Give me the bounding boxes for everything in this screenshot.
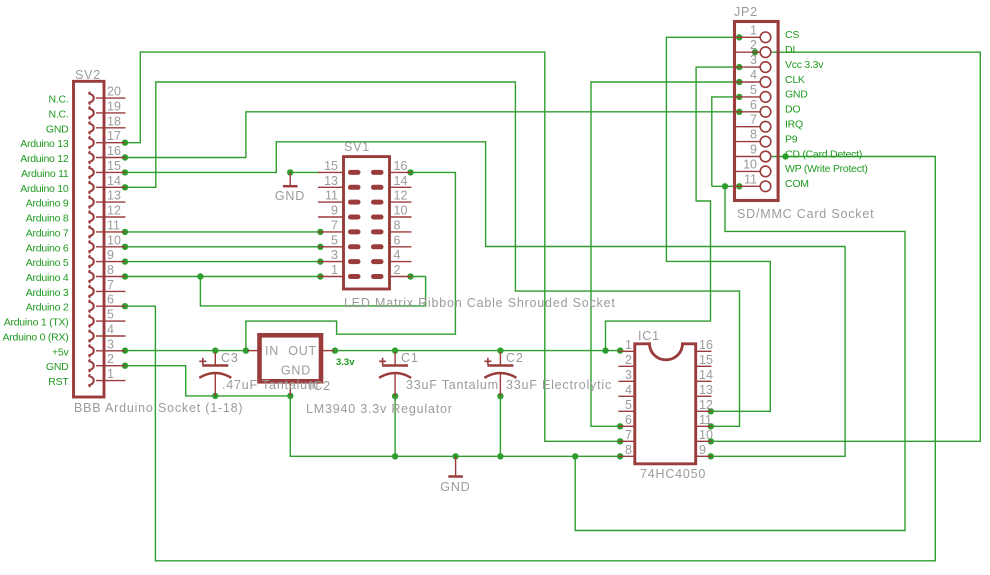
svg-text:11: 11	[107, 218, 120, 232]
svg-text:3: 3	[750, 53, 757, 67]
svg-text:GND: GND	[46, 361, 69, 373]
svg-text:Arduino 7: Arduino 7	[26, 227, 69, 239]
svg-text:10: 10	[107, 233, 121, 247]
svg-text:Arduino 11: Arduino 11	[21, 168, 69, 180]
svg-text:N.C.: N.C.	[49, 94, 69, 106]
junction dots net GND	[122, 94, 743, 460]
svg-text:Arduino 5: Arduino 5	[26, 257, 69, 269]
svg-text:9: 9	[107, 248, 114, 262]
svg-text:1: 1	[750, 23, 757, 37]
junction dots net Arduino10	[122, 184, 714, 429]
junction dots net Arduino12	[122, 109, 743, 161]
svg-text:4: 4	[394, 248, 401, 262]
svg-text:33uF Electrolytic: 33uF Electrolytic	[506, 378, 612, 392]
svg-text:LED Matrix Ribbon Cable Shroud: LED Matrix Ribbon Cable Shrouded Socket	[344, 296, 616, 310]
junction dots net DI	[708, 49, 759, 444]
wire C2 bottom to GND bus	[497, 393, 503, 456]
svg-text:6: 6	[625, 413, 632, 427]
svg-text:5: 5	[625, 398, 632, 412]
svg-text:8: 8	[625, 443, 632, 457]
svg-text:1: 1	[625, 338, 632, 352]
wire net Arduino7: SV2 pin11 to SV1 pin7	[122, 229, 324, 235]
wire net 3.3V: IC2 OUT, C1, C2, IC1 pin1, JP2 pin3	[334, 67, 737, 351]
svg-text:16: 16	[394, 159, 408, 173]
svg-text:14: 14	[107, 174, 121, 188]
svg-text:16: 16	[699, 338, 713, 352]
svg-text:GND: GND	[440, 480, 470, 494]
wire net CS: JP2 pin1 to IC1 pin12	[666, 37, 770, 411]
svg-text:C1: C1	[401, 351, 419, 365]
svg-text:P9: P9	[785, 133, 798, 145]
svg-text:9: 9	[699, 443, 706, 457]
svg-text:11: 11	[699, 413, 712, 427]
wire net Arduino6: SV2 pin10 to SV1 pin5	[122, 244, 324, 250]
svg-text:2: 2	[750, 38, 757, 52]
svg-text:BBB Arduino Socket (1-18): BBB Arduino Socket (1-18)	[74, 401, 243, 415]
capacitor C1	[379, 352, 411, 396]
svg-text:10: 10	[699, 428, 713, 442]
svg-text:IC1: IC1	[638, 329, 660, 343]
svg-text:9: 9	[331, 204, 338, 218]
svg-text:Arduino 1 (TX): Arduino 1 (TX)	[4, 317, 69, 329]
JP2 pin numbers 1..11	[743, 23, 757, 186]
svg-text:15: 15	[324, 159, 338, 173]
junction dots net Arduino4	[122, 273, 414, 279]
svg-text:14: 14	[699, 368, 713, 382]
svg-text:6: 6	[394, 233, 401, 247]
svg-text:13: 13	[699, 383, 713, 397]
svg-text:11: 11	[744, 172, 757, 186]
junction dots net Arduino11	[122, 169, 714, 459]
capacitor C3	[199, 352, 231, 396]
svg-text:3.3v: 3.3v	[336, 357, 355, 368]
svg-text:IRQ: IRQ	[785, 119, 803, 131]
svg-text:.47uF Tantalum: .47uF Tantalum	[222, 378, 319, 392]
svg-text:18: 18	[107, 114, 121, 128]
svg-text:Arduino 9: Arduino 9	[26, 198, 69, 210]
svg-text:1: 1	[107, 367, 114, 381]
svg-text:3: 3	[107, 337, 114, 351]
svg-text:WP (Write Protect): WP (Write Protect)	[785, 163, 868, 175]
IC1 pin numbers	[625, 338, 713, 457]
svg-text:C3: C3	[221, 351, 239, 365]
wire C1 bottom to GND bus	[392, 393, 398, 456]
svg-text:DO: DO	[785, 104, 800, 116]
wire net Arduino12/DO: SV2 pin16 to JP2 pin6	[126, 112, 737, 158]
wire net DI: JP2 pin2 to IC1 pin10	[712, 52, 981, 441]
svg-text:N.C.: N.C.	[49, 108, 69, 120]
svg-text:12: 12	[699, 398, 713, 412]
svg-text:IN: IN	[265, 344, 279, 358]
svg-text:1: 1	[331, 263, 338, 277]
svg-text:5: 5	[750, 83, 757, 97]
svg-text:Arduino 6: Arduino 6	[26, 242, 69, 254]
svg-text:CLK: CLK	[785, 74, 805, 86]
wire net Arduino13/SCK: SV2 pin17 to IC1 pin7	[126, 52, 619, 441]
svg-text:Vcc 3.3v: Vcc 3.3v	[785, 59, 824, 71]
wire net Arduino11/MOSI: SV2 pin15 to IC1 pin9	[126, 142, 846, 457]
svg-text:9: 9	[750, 143, 757, 157]
svg-text:Arduino 12: Arduino 12	[20, 153, 69, 165]
SV1 pin numbers	[324, 159, 407, 277]
svg-text:3: 3	[331, 248, 338, 262]
svg-text:LM3940 3.3v Regulator: LM3940 3.3v Regulator	[306, 402, 453, 416]
svg-text:8: 8	[750, 128, 757, 142]
svg-text:SV1: SV1	[344, 140, 370, 154]
junction dots net Arduino2	[122, 153, 789, 309]
svg-text:10: 10	[394, 204, 408, 218]
wire net +5V: SV2 pin3, C3, IC2 IN, SV1 pin16	[126, 172, 456, 350]
svg-text:2: 2	[394, 263, 401, 277]
svg-text:74HC4050: 74HC4050	[640, 467, 706, 481]
svg-text:8: 8	[394, 218, 401, 232]
connector SV2 body (BBB Arduino Socket)	[74, 81, 126, 397]
svg-text:SV2: SV2	[75, 68, 101, 82]
svg-text:12: 12	[107, 204, 121, 218]
svg-text:12: 12	[394, 189, 408, 203]
SV2 net labels	[3, 94, 70, 389]
junction dots net +5V	[122, 169, 414, 354]
svg-text:DI: DI	[785, 44, 795, 56]
svg-text:17: 17	[107, 129, 121, 143]
IC2 pin names IN OUT GND	[265, 344, 317, 378]
svg-text:4: 4	[750, 68, 757, 82]
svg-text:Arduino 0 (RX): Arduino 0 (RX)	[3, 332, 69, 344]
svg-text:Arduino 4: Arduino 4	[26, 272, 69, 284]
svg-text:OUT: OUT	[288, 344, 317, 358]
svg-text:C2: C2	[506, 351, 524, 365]
junction dots net 3.3V	[332, 64, 743, 354]
svg-text:11: 11	[325, 189, 338, 203]
svg-text:19: 19	[107, 99, 121, 113]
svg-text:7: 7	[625, 428, 632, 442]
svg-text:GND: GND	[785, 89, 808, 101]
svg-text:Arduino 10: Arduino 10	[20, 183, 69, 195]
ground symbol near SV1	[275, 172, 305, 203]
wire SV1 pin15 to GND symbol	[287, 169, 320, 175]
wire net GND: SV2 pin2, C3, IC2 GND, C1, C2, IC1 pin8, JP2 pin5, JP2 pin11 COM	[126, 97, 906, 531]
svg-text:6: 6	[750, 98, 757, 112]
svg-text:15: 15	[699, 353, 713, 367]
svg-text:2: 2	[107, 352, 114, 366]
svg-text:5: 5	[331, 233, 338, 247]
svg-text:14: 14	[394, 174, 408, 188]
connector JP2 body (SD/MMC card socket)	[735, 22, 779, 201]
svg-text:COM: COM	[785, 178, 809, 190]
svg-text:7: 7	[107, 278, 114, 292]
svg-text:GND: GND	[281, 364, 311, 378]
wire net Arduino2/CD: SV2 pin6 to JP2 pin9 (Card Detect)	[126, 157, 936, 561]
svg-text:13: 13	[107, 189, 121, 203]
junction dots net Arduino13	[122, 140, 624, 445]
svg-text:10: 10	[743, 157, 757, 171]
junction dots net CS	[708, 34, 743, 414]
svg-text:SD/MMC Card Socket: SD/MMC Card Socket	[737, 207, 874, 221]
svg-text:7: 7	[331, 218, 338, 232]
JP2 net labels	[785, 29, 868, 190]
svg-text:2: 2	[625, 353, 632, 367]
ground symbol below GND bus	[440, 456, 470, 494]
svg-text:+5v: +5v	[52, 346, 69, 358]
svg-text:GND: GND	[46, 123, 69, 135]
svg-text:33uF Tantalum: 33uF Tantalum	[406, 378, 499, 392]
wire net Arduino4: SV2 pin8 to SV1 pin1 and SV1 pin2	[126, 277, 426, 306]
svg-text:3: 3	[625, 368, 632, 382]
SV2 pin numbers 20..1	[107, 85, 121, 382]
svg-text:13: 13	[324, 174, 338, 188]
svg-text:15: 15	[107, 159, 121, 173]
svg-text:20: 20	[107, 85, 121, 99]
svg-text:8: 8	[107, 263, 114, 277]
IC U1: IC1 74HC4050 body	[618, 344, 711, 464]
svg-text:GND: GND	[275, 189, 305, 203]
svg-text:16: 16	[107, 144, 121, 158]
svg-text:JP2: JP2	[734, 5, 758, 19]
svg-text:RST: RST	[48, 376, 69, 388]
svg-text:4: 4	[107, 323, 114, 337]
IC U2: IC2 LM3940 regulator body	[248, 335, 335, 396]
svg-text:Arduino 3: Arduino 3	[26, 287, 69, 299]
svg-text:Arduino 2: Arduino 2	[26, 302, 69, 314]
svg-text:CD (Card Detect): CD (Card Detect)	[785, 148, 862, 160]
svg-text:CS: CS	[785, 29, 799, 41]
svg-text:4: 4	[625, 383, 632, 397]
svg-text:6: 6	[107, 293, 114, 307]
svg-text:7: 7	[750, 113, 757, 127]
connector SV1 body (LED matrix socket)	[318, 157, 412, 289]
svg-text:5: 5	[107, 308, 114, 322]
svg-text:Arduino 8: Arduino 8	[26, 213, 69, 225]
capacitor C2	[484, 352, 516, 396]
svg-text:Arduino 13: Arduino 13	[20, 138, 69, 150]
wire net Arduino10/SS: SV2 pin14 to IC1 pin11	[126, 82, 740, 426]
wire net Arduino5: SV2 pin9 to SV1 pin3	[122, 258, 324, 264]
wire net CLK: JP2 pin4 to IC1 pin6	[591, 82, 737, 426]
junction dots net CLK	[617, 79, 743, 430]
